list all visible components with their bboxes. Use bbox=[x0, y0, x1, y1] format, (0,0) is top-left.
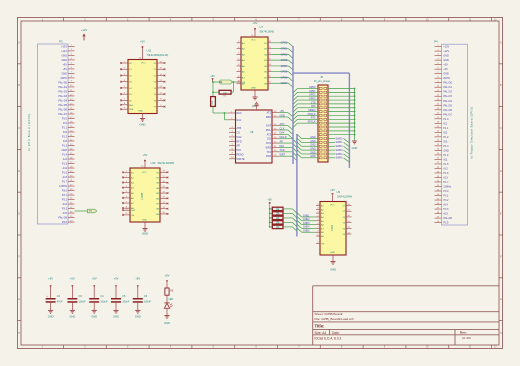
svg-text:A13: A13 bbox=[63, 176, 68, 179]
svg-text:LS04: LS04 bbox=[332, 225, 334, 231]
svg-text:PAL-D6: PAL-D6 bbox=[58, 108, 67, 111]
svg-text:DAV: DAV bbox=[280, 132, 285, 135]
svg-text:GND: GND bbox=[135, 314, 141, 318]
svg-text:+5V: +5V bbox=[330, 188, 335, 192]
svg-text:READ: READ bbox=[237, 153, 244, 156]
svg-text:P3.3: P3.3 bbox=[62, 208, 68, 211]
svg-text:P3.2: P3.2 bbox=[62, 199, 68, 202]
svg-text:PAL-D7: PAL-D7 bbox=[58, 113, 67, 116]
svg-text:+12V: +12V bbox=[443, 50, 449, 53]
svg-text:CS: CS bbox=[237, 132, 241, 135]
svg-text:RTS: RTS bbox=[311, 117, 316, 120]
svg-text:+12V: +12V bbox=[61, 50, 67, 53]
svg-text:IO1: IO1 bbox=[443, 122, 448, 125]
svg-text:DIO: DIO bbox=[237, 149, 242, 152]
svg-text:GND: GND bbox=[443, 55, 449, 58]
svg-text:74HC4051(DIL16): 74HC4051(DIL16) bbox=[147, 53, 169, 57]
svg-text:A11: A11 bbox=[63, 158, 68, 161]
svg-text:U9: U9 bbox=[337, 190, 341, 194]
svg-text:+5V: +5V bbox=[48, 277, 53, 281]
svg-text:PAL-D4: PAL-D4 bbox=[443, 100, 452, 103]
svg-text:12MHz: 12MHz bbox=[443, 186, 452, 189]
svg-text:+5V: +5V bbox=[210, 75, 215, 78]
svg-text:PAL-D5: PAL-D5 bbox=[443, 104, 452, 107]
svg-text:MCLR: MCLR bbox=[280, 136, 287, 139]
svg-text:100nF: 100nF bbox=[100, 301, 108, 304]
svg-text:12MHz: 12MHz bbox=[59, 185, 68, 188]
svg-text:100nF: 100nF bbox=[144, 301, 152, 304]
svg-text:KBCLK: KBCLK bbox=[308, 113, 316, 116]
svg-text:DIR: DIR bbox=[131, 210, 135, 212]
svg-text:P1.6: P1.6 bbox=[62, 172, 68, 175]
svg-text:PAL-D4: PAL-D4 bbox=[58, 99, 67, 102]
svg-text:SWD1: SWD1 bbox=[336, 141, 344, 144]
svg-text:GPD7: GPD7 bbox=[281, 82, 288, 85]
svg-text:DIO: DIO bbox=[311, 105, 315, 108]
svg-text:P3.5: P3.5 bbox=[443, 222, 449, 225]
svg-text:+5V: +5V bbox=[62, 63, 67, 66]
svg-text:RA0: RA0 bbox=[237, 112, 242, 115]
svg-text:IO_pin_pinout: IO_pin_pinout bbox=[314, 79, 330, 83]
svg-text:RD2: RD2 bbox=[266, 155, 272, 158]
svg-text:P4: P4 bbox=[434, 40, 438, 44]
svg-text:MREQ: MREQ bbox=[308, 109, 315, 112]
svg-text:DAT: DAT bbox=[266, 125, 271, 128]
svg-text:P3.1: P3.1 bbox=[62, 194, 68, 197]
svg-text:OE: OE bbox=[131, 215, 135, 217]
svg-text:P3.1: P3.1 bbox=[443, 195, 449, 198]
svg-text:DV2: DV2 bbox=[266, 142, 271, 145]
svg-text:P1.4: P1.4 bbox=[62, 154, 68, 157]
svg-text:SWD5: SWD5 bbox=[336, 157, 344, 160]
svg-text:GND: GND bbox=[352, 146, 358, 150]
svg-text:KiCad E.D.A. 8.0.3: KiCad E.D.A. 8.0.3 bbox=[315, 336, 342, 340]
svg-text:A12: A12 bbox=[63, 167, 68, 170]
svg-text:to CPU Board (GPIO): to CPU Board (GPIO) bbox=[27, 113, 31, 151]
svg-text:+12V: +12V bbox=[81, 28, 88, 32]
svg-text:GPD5: GPD5 bbox=[281, 71, 288, 74]
svg-text:P1.3: P1.3 bbox=[443, 145, 449, 148]
svg-text:WRT: WRT bbox=[280, 153, 286, 156]
svg-text:GND: GND bbox=[251, 88, 256, 90]
svg-text:SWD3: SWD3 bbox=[336, 149, 344, 152]
svg-text:P1.6: P1.6 bbox=[443, 172, 449, 175]
svg-text:WRITE: WRITE bbox=[237, 158, 245, 161]
svg-text:IO3: IO3 bbox=[63, 140, 68, 143]
svg-text:A12: A12 bbox=[443, 167, 448, 170]
svg-text:GND: GND bbox=[330, 268, 336, 272]
svg-text:+5V: +5V bbox=[140, 39, 145, 43]
svg-text:GPD3: GPD3 bbox=[309, 97, 316, 100]
svg-text:ATI: ATI bbox=[280, 140, 284, 143]
svg-text:PAL-D6: PAL-D6 bbox=[443, 109, 452, 112]
svg-text:GPD1: GPD1 bbox=[281, 47, 288, 50]
svg-text:GND: GND bbox=[164, 321, 170, 325]
svg-text:GPD3: GPD3 bbox=[281, 59, 288, 62]
svg-text:OE: OE bbox=[321, 244, 325, 246]
svg-text:OE: OE bbox=[242, 82, 246, 84]
svg-text:VCC: VCC bbox=[141, 63, 146, 65]
svg-text:ATN: ATN bbox=[280, 123, 285, 126]
svg-text:GND4: GND4 bbox=[303, 226, 310, 229]
svg-text:File: GPIB_BoardInLoad.sch: File: GPIB_BoardInLoad.sch bbox=[315, 317, 354, 321]
svg-text:GND: GND bbox=[140, 123, 146, 127]
svg-text:GND: GND bbox=[443, 73, 449, 76]
svg-text:P1.7: P1.7 bbox=[62, 181, 68, 184]
svg-text:OE: OE bbox=[219, 82, 223, 84]
svg-text:DIO: DIO bbox=[280, 145, 285, 148]
svg-text:Id: 4/9: Id: 4/9 bbox=[462, 336, 471, 340]
svg-text:Size: A4: Size: A4 bbox=[315, 331, 327, 335]
svg-text:+: + bbox=[46, 294, 48, 298]
svg-text:GND: GND bbox=[310, 144, 316, 147]
svg-text:A11: A11 bbox=[443, 158, 448, 161]
svg-text:AT3: AT3 bbox=[267, 133, 272, 136]
svg-text:+5V: +5V bbox=[253, 21, 258, 25]
svg-text:A14: A14 bbox=[63, 203, 68, 206]
svg-text:PAL-D5: PAL-D5 bbox=[58, 104, 67, 107]
svg-text:LED: LED bbox=[169, 298, 174, 301]
svg-text:RFD: RFD bbox=[237, 140, 242, 143]
svg-text:+12V: +12V bbox=[443, 46, 449, 49]
svg-text:PAL-D8: PAL-D8 bbox=[443, 217, 452, 220]
svg-text:P1.2: P1.2 bbox=[62, 136, 68, 139]
svg-text:GND: GND bbox=[61, 72, 67, 75]
svg-text:GND5: GND5 bbox=[303, 230, 310, 233]
svg-text:GPD2: GPD2 bbox=[309, 94, 316, 97]
svg-text:J5: J5 bbox=[320, 75, 323, 79]
svg-text:PAL-D0: PAL-D0 bbox=[443, 82, 452, 85]
svg-text:GND2: GND2 bbox=[303, 218, 310, 221]
svg-text:CTS: CTS bbox=[311, 101, 316, 104]
svg-text:+12V: +12V bbox=[61, 45, 67, 48]
svg-text:P1.5: P1.5 bbox=[62, 163, 68, 166]
svg-text:LS245: LS245 bbox=[142, 192, 144, 199]
svg-text:P1.7: P1.7 bbox=[443, 181, 449, 184]
svg-text:PAL-D0: PAL-D0 bbox=[58, 81, 67, 84]
svg-text:P1.5: P1.5 bbox=[443, 163, 449, 166]
svg-text:Title:: Title: bbox=[315, 324, 325, 329]
svg-text:CLK: CLK bbox=[280, 127, 285, 130]
svg-text:SWD0: SWD0 bbox=[336, 137, 344, 140]
svg-text:GND: GND bbox=[280, 114, 286, 117]
svg-text:GPD1: GPD1 bbox=[309, 90, 316, 93]
svg-text:+5V: +5V bbox=[443, 64, 448, 67]
svg-text:ATI: ATI bbox=[237, 145, 241, 148]
svg-text:GPD6: GPD6 bbox=[281, 76, 288, 79]
svg-text:GND: GND bbox=[142, 219, 147, 221]
svg-text:100nF: 100nF bbox=[122, 301, 130, 304]
svg-text:+5V: +5V bbox=[114, 277, 119, 281]
svg-text:PAL-D1: PAL-D1 bbox=[58, 86, 67, 89]
svg-text:P3.0: P3.0 bbox=[443, 190, 449, 193]
svg-text:G: G bbox=[500, 299, 502, 301]
svg-text:SWD2: SWD2 bbox=[336, 145, 344, 148]
svg-text:PAL-D1: PAL-D1 bbox=[443, 86, 452, 89]
svg-text:GND: GND bbox=[138, 111, 143, 113]
svg-text:P3.2: P3.2 bbox=[443, 199, 449, 202]
svg-text:G: G bbox=[18, 299, 20, 301]
svg-text:RA1: RA1 bbox=[237, 119, 242, 122]
svg-text:DI2: DI2 bbox=[267, 138, 272, 141]
svg-text:PAL-D3: PAL-D3 bbox=[443, 95, 452, 98]
svg-text:PAL-D2: PAL-D2 bbox=[443, 91, 452, 94]
svg-text:P3.0: P3.0 bbox=[62, 190, 68, 193]
svg-text:+5V: +5V bbox=[135, 277, 140, 281]
svg-text:GPD4: GPD4 bbox=[281, 65, 288, 68]
svg-text:Sheet: /GPIB Board/: Sheet: /GPIB Board/ bbox=[315, 312, 343, 316]
svg-text:+5V: +5V bbox=[62, 68, 67, 71]
svg-text:GND: GND bbox=[113, 314, 119, 318]
svg-text:P1.0: P1.0 bbox=[443, 118, 449, 121]
svg-text:+5V: +5V bbox=[92, 277, 97, 281]
svg-text:+5V: +5V bbox=[143, 153, 148, 157]
svg-text:P1.4: P1.4 bbox=[443, 154, 449, 157]
svg-text:PAL-D3: PAL-D3 bbox=[58, 95, 67, 98]
svg-text:TX2: TX2 bbox=[266, 151, 271, 154]
svg-text:47uF: 47uF bbox=[57, 301, 63, 304]
svg-text:GND1: GND1 bbox=[303, 214, 310, 217]
svg-text:PAL-D7: PAL-D7 bbox=[443, 113, 452, 116]
svg-text:SWD4: SWD4 bbox=[336, 153, 344, 156]
svg-text:P1.1: P1.1 bbox=[62, 126, 68, 129]
svg-text:VCC: VCC bbox=[330, 204, 335, 206]
svg-text:GND3: GND3 bbox=[303, 222, 310, 225]
svg-text:+5V: +5V bbox=[267, 197, 272, 201]
svg-text:PAL-D2: PAL-D2 bbox=[58, 90, 67, 93]
svg-text:SN74LS645: SN74LS645 bbox=[260, 29, 275, 33]
svg-text:GND: GND bbox=[61, 149, 67, 152]
svg-text:VEE: VEE bbox=[129, 109, 134, 111]
svg-text:P3.3: P3.3 bbox=[443, 208, 449, 211]
svg-text:GND: GND bbox=[70, 314, 76, 318]
svg-text:GND: GND bbox=[310, 140, 316, 143]
svg-text:SPCLK: SPCLK bbox=[308, 121, 316, 124]
svg-text:GND: GND bbox=[310, 136, 316, 139]
svg-text:U7: U7 bbox=[260, 25, 264, 29]
svg-text:2MHz: 2MHz bbox=[443, 77, 450, 80]
svg-text:GPD2: GPD2 bbox=[281, 53, 288, 56]
svg-text:U10: U10 bbox=[151, 161, 156, 165]
svg-text:to Floppy Simulator Board (GPI: to Floppy Simulator Board (GPIO) bbox=[470, 107, 474, 159]
svg-text:IO1: IO1 bbox=[63, 122, 68, 125]
svg-text:+5V: +5V bbox=[165, 273, 170, 277]
svg-text:INH: INH bbox=[129, 105, 133, 107]
svg-text:PAL-D8: PAL-D8 bbox=[58, 217, 67, 220]
svg-text:GND: GND bbox=[310, 148, 316, 151]
svg-text:VCC: VCC bbox=[251, 40, 256, 42]
svg-text:Date:: Date: bbox=[332, 331, 340, 335]
svg-text:A13: A13 bbox=[443, 176, 448, 179]
svg-text:MCL: MCL bbox=[266, 129, 272, 132]
svg-text:AT2: AT2 bbox=[267, 112, 272, 115]
svg-text:GPD0: GPD0 bbox=[309, 86, 316, 89]
svg-text:VCC: VCC bbox=[142, 172, 147, 174]
svg-text:+5V: +5V bbox=[280, 110, 285, 113]
svg-text:GND: GND bbox=[443, 59, 449, 62]
svg-text:DAV: DAV bbox=[237, 136, 242, 139]
svg-text:WR2: WR2 bbox=[265, 146, 271, 149]
svg-text:IO2: IO2 bbox=[443, 131, 448, 134]
svg-text:IO2: IO2 bbox=[63, 131, 68, 134]
svg-text:Rev:: Rev: bbox=[460, 331, 467, 335]
svg-text:GND: GND bbox=[310, 151, 316, 154]
svg-text:+5V: +5V bbox=[443, 68, 448, 71]
svg-text:GND: GND bbox=[91, 314, 97, 318]
svg-text:GND: GND bbox=[61, 54, 67, 57]
svg-text:A14: A14 bbox=[443, 204, 448, 207]
svg-text:GND: GND bbox=[48, 314, 54, 318]
svg-text:GND: GND bbox=[142, 232, 148, 236]
svg-text:P1.0: P1.0 bbox=[62, 117, 68, 120]
svg-text:2MHz: 2MHz bbox=[60, 77, 67, 80]
svg-text:P1.1: P1.1 bbox=[443, 127, 449, 130]
svg-text:P3: P3 bbox=[59, 39, 63, 43]
svg-text:U8: U8 bbox=[250, 130, 254, 134]
svg-text:TXD: TXD bbox=[280, 149, 285, 152]
svg-text:A15: A15 bbox=[443, 213, 448, 216]
svg-text:GND: GND bbox=[443, 149, 449, 152]
svg-text:GND: GND bbox=[330, 252, 335, 254]
svg-text:GND: GND bbox=[310, 155, 316, 158]
svg-text:ATB: ATB bbox=[237, 127, 242, 130]
svg-text:U11: U11 bbox=[147, 49, 152, 53]
svg-text:GND: GND bbox=[252, 104, 258, 108]
svg-text:100nF: 100nF bbox=[79, 301, 87, 304]
svg-text:KBD: KBD bbox=[266, 116, 271, 119]
svg-text:P1.3: P1.3 bbox=[62, 145, 68, 148]
svg-text:P1.2: P1.2 bbox=[443, 136, 449, 139]
svg-text:GPD0: GPD0 bbox=[281, 42, 288, 45]
svg-text:+5V: +5V bbox=[70, 277, 75, 281]
svg-text:SN74LS245N: SN74LS245N bbox=[158, 161, 174, 165]
svg-text:IO3: IO3 bbox=[443, 140, 448, 143]
svg-text:GND: GND bbox=[61, 59, 67, 62]
svg-text:P3.5: P3.5 bbox=[62, 221, 68, 224]
svg-text:TX: TX bbox=[89, 211, 92, 213]
svg-text:A15: A15 bbox=[63, 212, 68, 215]
svg-text:SN74LS04N: SN74LS04N bbox=[337, 195, 352, 199]
